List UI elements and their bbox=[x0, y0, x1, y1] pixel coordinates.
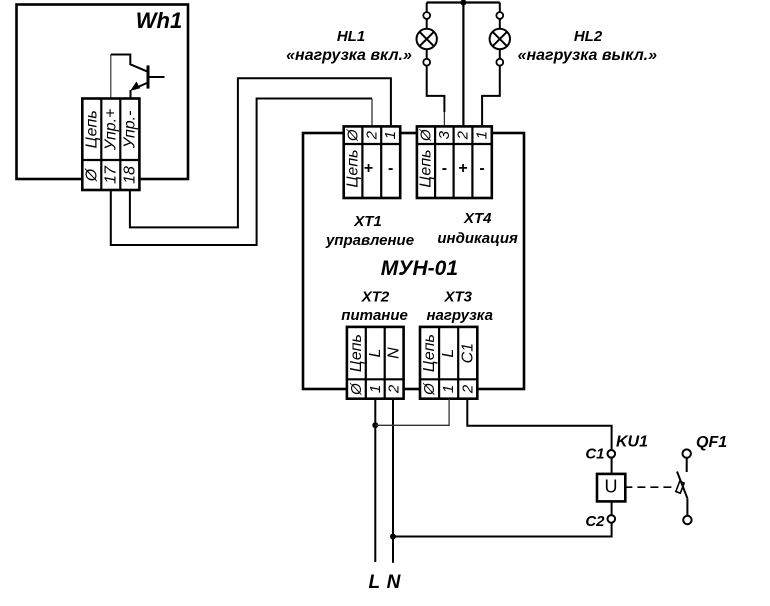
svg-text:3: 3 bbox=[436, 130, 453, 139]
svg-text:Упр.+: Упр.+ bbox=[102, 109, 119, 152]
svg-text:«нагрузка вкл.»: «нагрузка вкл.» bbox=[286, 47, 412, 64]
HL1 bottom connector circle bbox=[423, 59, 430, 66]
svg-text:N: N bbox=[386, 347, 403, 359]
svg-text:-: - bbox=[479, 160, 484, 177]
lamp HL1 bulb bbox=[417, 29, 437, 49]
wire L: XT2 pin1 down bbox=[374, 399, 376, 562]
wire: collector loop (thin) bbox=[110, 55, 112, 100]
meter box Wh1 bbox=[17, 5, 189, 180]
svg-text:Ø: Ø bbox=[83, 167, 100, 182]
svg-text:1: 1 bbox=[367, 385, 384, 393]
svg-text:XT1: XT1 bbox=[353, 213, 382, 230]
svg-text:2: 2 bbox=[459, 384, 476, 394]
svg-text:2: 2 bbox=[386, 384, 403, 394]
junction dot on L wire bbox=[372, 422, 378, 428]
wire: HL1 to XT4 pin3 bbox=[427, 66, 445, 112]
svg-text:HL1: HL1 bbox=[337, 28, 365, 45]
wire: Wh1 pin17 to XT1 pin2 bbox=[111, 99, 372, 246]
svg-text:N: N bbox=[387, 572, 402, 593]
svg-text:Цепь: Цепь bbox=[345, 149, 362, 187]
svg-text:-: - bbox=[442, 160, 447, 177]
svg-text:+: + bbox=[364, 160, 373, 177]
QF1 bottom terminal circle bbox=[683, 516, 691, 524]
junction dot on top bus bbox=[460, 0, 466, 6]
svg-text:KU1: KU1 bbox=[616, 434, 648, 451]
wire: C1 to coil bbox=[611, 457, 613, 473]
svg-text:1: 1 bbox=[440, 385, 457, 393]
svg-text:XT3: XT3 bbox=[443, 289, 472, 306]
svg-text:Цепь: Цепь bbox=[83, 110, 100, 148]
HL2 bottom connector circle bbox=[496, 59, 503, 66]
wire bbox=[426, 49, 428, 59]
terminal block XT3 bbox=[420, 327, 477, 399]
wire bbox=[426, 19, 428, 29]
wire: coil to C2 bbox=[611, 501, 613, 516]
terminal C1 bbox=[608, 450, 616, 458]
svg-text:U: U bbox=[605, 477, 618, 497]
svg-text:2: 2 bbox=[363, 130, 380, 140]
wire: XT3 pin2 to KU1 C1 bbox=[467, 399, 611, 451]
svg-text:Цепь: Цепь bbox=[348, 334, 365, 372]
svg-text:Упр.-: Упр.- bbox=[121, 111, 138, 150]
svg-text:QF1: QF1 bbox=[696, 434, 727, 451]
svg-text:C1: C1 bbox=[459, 343, 476, 363]
svg-text:1: 1 bbox=[382, 131, 399, 139]
svg-text:C2: C2 bbox=[585, 513, 605, 530]
svg-text:питание: питание bbox=[341, 307, 408, 324]
HL1 top connector circle bbox=[423, 12, 430, 19]
wire: top bus to XT4 pin2 bbox=[462, 3, 464, 127]
transistor base bar bbox=[147, 65, 150, 88]
mechanical link (dashed) coil to QF1 bbox=[624, 486, 676, 488]
terminal block XT2 bbox=[347, 327, 404, 399]
svg-text:«нагрузка выкл.»: «нагрузка выкл.» bbox=[518, 47, 658, 64]
wire: transistor collector loop bbox=[111, 55, 148, 72]
svg-text:C1: C1 bbox=[585, 446, 604, 463]
wire: L branch to XT3 pin1 (thin) bbox=[375, 399, 449, 426]
terminal block XT4 bbox=[417, 126, 492, 198]
wire: C2 to N junction bbox=[393, 522, 612, 536]
svg-text:-: - bbox=[388, 160, 393, 177]
lamp HL2 bulb bbox=[490, 29, 510, 49]
svg-text:2: 2 bbox=[455, 130, 472, 140]
QF1 breaker latch rectangle bbox=[676, 481, 684, 493]
svg-text:HL2: HL2 bbox=[574, 28, 603, 45]
svg-text:МУН-01: МУН-01 bbox=[381, 257, 458, 280]
QF1 breaker blade bbox=[677, 472, 688, 499]
svg-text:1: 1 bbox=[474, 131, 491, 139]
svg-text:Ø: Ø bbox=[348, 382, 365, 396]
wire bbox=[499, 19, 501, 29]
wire: QF1 fixed contact bbox=[686, 458, 688, 472]
wire: HL2 to XT4 pin1 bbox=[482, 66, 500, 127]
svg-text:17: 17 bbox=[102, 165, 119, 184]
wire: emitter lead to Упр.- bbox=[130, 90, 132, 99]
wire N: XT2 pin2 down bbox=[392, 399, 394, 563]
wire: bus to HL1 top contact bbox=[426, 3, 428, 13]
device box МУН-01 bbox=[303, 133, 524, 389]
wire: bus to HL2 top contact bbox=[499, 3, 501, 13]
wire: stub into XT1 pin2 (thin) bbox=[371, 99, 373, 127]
terminal block XT1 bbox=[344, 126, 401, 198]
svg-text:XT2: XT2 bbox=[361, 289, 390, 306]
wire: top bus between lamps bbox=[427, 1, 500, 3]
wire: stub into XT4 pin3 (thin) bbox=[443, 112, 445, 127]
wire: QF1 lower lead bbox=[686, 499, 688, 516]
transistor emitter with arrow bbox=[134, 83, 149, 90]
svg-text:Цепь: Цепь bbox=[418, 149, 435, 187]
svg-text:L: L bbox=[368, 572, 380, 593]
svg-text:Wh1: Wh1 bbox=[136, 8, 182, 33]
wire: transistor base lead bbox=[148, 76, 165, 78]
junction dot on N wire bbox=[390, 534, 396, 540]
terminal C2 bbox=[608, 515, 616, 523]
svg-text:L: L bbox=[440, 349, 457, 358]
HL2 top connector circle bbox=[496, 12, 503, 19]
svg-text:XT4: XT4 bbox=[463, 210, 492, 227]
svg-text:управление: управление bbox=[325, 232, 414, 249]
svg-text:L: L bbox=[367, 349, 384, 358]
svg-text:нагрузка: нагрузка bbox=[426, 307, 493, 324]
svg-text:индикация: индикация bbox=[437, 230, 518, 247]
svg-text:Ø: Ø bbox=[421, 382, 438, 396]
svg-text:+: + bbox=[458, 160, 467, 177]
relay coil KU1 (U box) bbox=[597, 474, 625, 502]
QF1 top terminal circle bbox=[683, 449, 691, 457]
wire: Wh1 pin18 to XT1 pin1 bbox=[130, 78, 391, 227]
wire bbox=[499, 49, 501, 59]
svg-text:Цепь: Цепь bbox=[421, 334, 438, 372]
terminal block XT of Wh1 bbox=[82, 99, 139, 191]
svg-text:Ø: Ø bbox=[418, 128, 435, 142]
svg-text:18: 18 bbox=[121, 166, 138, 184]
svg-text:Ø: Ø bbox=[345, 128, 362, 142]
